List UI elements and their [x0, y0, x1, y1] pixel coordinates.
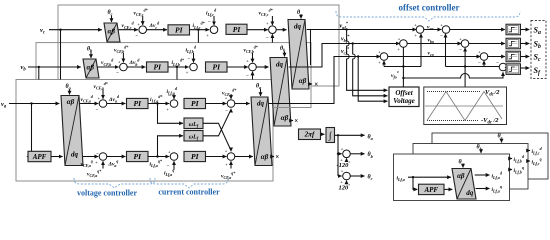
svg-text:APF: APF	[423, 186, 438, 194]
wire i_Lf,c^q output arrow	[528, 160, 530, 162]
wire i_Lf,a into transform block	[408, 176, 451, 178]
wire summer 1a-d to PI a1-d	[107, 103, 126, 105]
junction i_Lf,b branch	[176, 66, 178, 68]
svg-text:θa: θa	[256, 84, 262, 91]
svg-text:+: +	[440, 23, 443, 28]
current transform frame phase c (back)	[432, 133, 548, 179]
wire theta_a arrow into dq block a	[260, 89, 262, 96]
wire v_CF,c^d* arrow into summer 1c	[142, 16, 144, 25]
summer 3a-q	[227, 153, 235, 161]
svg-text:−: −	[187, 58, 190, 63]
wire theta_b arrow stacked	[480, 150, 482, 153]
summer 3a-d	[227, 100, 235, 108]
comparator block S_c	[506, 51, 521, 62]
PI controller b2 (current)	[206, 62, 228, 72]
svg-text:−: −	[167, 165, 170, 170]
svg-text:θb: θb	[368, 152, 374, 159]
frame phase-b controller	[36, 43, 311, 108]
wire i_Lf,c^d output arrow	[528, 150, 530, 152]
svg-text:-120°: -120°	[337, 161, 351, 170]
svg-text:+: +	[414, 23, 417, 28]
svg-text:PI: PI	[134, 152, 143, 161]
svg-text:×: ×	[294, 117, 298, 125]
wire APF to dq input of block a	[51, 156, 63, 158]
wire feedforward arrow into summer 3c	[271, 16, 273, 25]
summer 1a-d	[99, 100, 107, 108]
comparator block S_a	[506, 24, 521, 35]
wire carrier riser to summer o2b	[464, 48, 466, 67]
svg-text:θa: θa	[66, 84, 72, 91]
svg-text:+: +	[266, 21, 269, 26]
wire block a to summer 1a-d	[80, 103, 99, 105]
current transform frame phase a (front)	[394, 154, 510, 201]
PI controller c1 (voltage)	[168, 25, 190, 35]
svg-text:−: −	[208, 20, 211, 25]
current transform frame phase b (middle)	[413, 144, 528, 190]
wire summer 3b to dq block b	[256, 66, 268, 68]
wire alpha-beta c output to x mark	[309, 83, 312, 85]
transform block alpha-beta (phase c)	[104, 23, 120, 42]
svg-text:+: +	[166, 107, 169, 112]
summer o2a (carrier compare)	[442, 26, 450, 34]
summer 2a-q	[170, 153, 178, 161]
wire i_Lf,a^d branch to wLf1	[158, 104, 183, 124]
wire theta_c arrow stacked	[501, 139, 503, 143]
svg-text:PI: PI	[191, 152, 200, 161]
svg-text:θb: θb	[87, 47, 93, 54]
transform block dq/alpha-beta (phase c output)	[288, 20, 309, 90]
carrier upper dotted limit	[427, 91, 481, 93]
wire hidden input up into summer 3c	[271, 34, 273, 42]
wire i_Lf,b branch down (hidden)	[176, 67, 178, 80]
wire theta_c arrow into alpha-beta	[111, 16, 113, 23]
wire comparator a to S_a	[521, 29, 530, 31]
svg-text:αβ: αβ	[67, 98, 75, 106]
svg-text:+: +	[168, 150, 171, 155]
svg-text:dq: dq	[466, 189, 474, 197]
summer 3b	[249, 63, 257, 71]
summer theta_c	[343, 172, 351, 180]
svg-text:voltage controller: voltage controller	[77, 189, 138, 198]
svg-text:PI: PI	[233, 25, 242, 34]
transform block dq/alpha-beta (phase a output)	[251, 97, 272, 166]
svg-text:+: +	[98, 96, 101, 101]
wire feedforward arrow into summer 3b	[252, 53, 254, 62]
PI controller a2-d (current)	[184, 98, 206, 108]
wire v_bf tap down to Offset Voltage (with hop)	[353, 44, 388, 96]
wire i_Lf,c^d arrow into summer 2c	[213, 16, 215, 25]
wire i_Lf,a^d output	[475, 174, 490, 176]
wire alpha-beta b output to x mark	[291, 120, 293, 122]
PI controller b1 (voltage)	[147, 62, 169, 72]
svg-text:ωLf: ωLf	[189, 135, 199, 141]
svg-text:−: −	[135, 34, 138, 39]
wire PI a2-q to summer 3a-q	[206, 156, 227, 158]
wire v_cf tap down to Offset Voltage	[358, 57, 387, 102]
wire theta_c arrow into dq block c	[300, 16, 302, 19]
svg-text:dq: dq	[294, 23, 302, 31]
svg-text:+: +	[341, 147, 344, 152]
wire theta_a arrow stacked	[462, 165, 464, 168]
wire summer 1a-q to PI a1-q	[107, 156, 126, 158]
transform block dq/alpha-beta (phase b output)	[270, 58, 291, 127]
junction theta branch b	[337, 153, 339, 155]
svg-text:−: −	[496, 62, 499, 67]
summer 1a-q	[99, 153, 107, 161]
frame-b bottom edge remnant	[273, 107, 311, 109]
PI controller a2-q (current)	[184, 151, 206, 161]
junction v_fo distribution	[402, 65, 404, 67]
svg-text:2πf: 2πf	[304, 131, 315, 139]
svg-text:αβ: αβ	[261, 153, 269, 161]
svg-text:αβ: αβ	[281, 114, 289, 122]
wire APF to dq stacked	[444, 188, 452, 190]
svg-text:Offset: Offset	[395, 89, 413, 97]
svg-text:dq: dq	[257, 100, 265, 108]
junction i_Lf,a branch	[412, 176, 414, 178]
wire v_CF,a^d* arrow into summer 1a-d	[102, 90, 104, 99]
summer 2c	[210, 26, 218, 34]
wire branch into APF	[27, 156, 32, 158]
wire i_Lf,a branch to APF	[413, 177, 417, 189]
svg-text:αβ: αβ	[86, 64, 94, 72]
svg-text:×: ×	[314, 80, 318, 88]
PI controller c2 (current)	[226, 24, 247, 34]
svg-text:+: +	[225, 162, 228, 167]
wire -120 into theta_b summer	[346, 158, 348, 160]
svg-text:+: +	[397, 47, 400, 52]
wire comparator b to S_b	[521, 43, 530, 45]
summer 2a-d	[170, 100, 178, 108]
wire v_fo riser into summer o1c	[383, 61, 385, 67]
svg-text:+: +	[398, 37, 401, 42]
wire v_b branch down (hidden q-chain)	[38, 67, 40, 80]
wire 2-pi-f to integrator	[321, 133, 325, 135]
svg-text:−: −	[459, 49, 462, 54]
wire 120 into theta_c summer	[346, 181, 348, 183]
wire i_Lf,a^q output	[476, 188, 490, 190]
svg-text:+: +	[414, 33, 417, 38]
wire i_Lf,b^q output arrow	[510, 169, 513, 171]
wire theta branch down	[337, 135, 339, 176]
wire carrier riser to summer o2a	[445, 34, 447, 67]
wire v_b to alpha-beta block b	[28, 66, 81, 68]
wire hidden input up into summer 3b	[252, 72, 254, 80]
wire i_Lf,c branch down (hidden)	[197, 30, 199, 43]
svg-text:+: +	[118, 60, 121, 65]
carrier waveform box	[424, 87, 507, 125]
wire v_CF,b^d* arrow into summer 1b	[122, 53, 124, 62]
comparator block S_f	[506, 64, 521, 75]
decoupling block wLf 2	[184, 131, 203, 142]
wire summer 3c to dq block c	[276, 29, 286, 31]
carrier lower dotted limit	[427, 120, 478, 122]
wire theta_c summer output	[350, 175, 364, 177]
svg-text:current controller: current controller	[158, 188, 220, 197]
svg-text:−: −	[96, 152, 99, 157]
svg-text:dq: dq	[71, 150, 79, 158]
wire v_af tap down to Offset Voltage (with hops)	[347, 30, 388, 91]
wire into theta_c summer	[338, 175, 342, 177]
svg-text:ωLf: ωLf	[189, 122, 199, 128]
transform block alpha-beta/dq (phase a input)	[61, 96, 83, 166]
svg-text:αβ: αβ	[299, 77, 307, 85]
wire summer o2c to comparator c	[488, 56, 505, 58]
wire PI a2-d to summer 3a-d	[206, 103, 227, 105]
wire integrator to theta_a	[335, 134, 365, 136]
PI controller a1-d (voltage)	[127, 98, 149, 108]
wire summer o2b to comparator b	[469, 43, 505, 45]
svg-text:PI: PI	[134, 99, 143, 108]
summer 3c	[269, 26, 277, 34]
wire v_bo to summer o2b	[407, 43, 461, 45]
wire offset voltage riser	[402, 47, 404, 87]
svg-text:+: +	[478, 50, 481, 55]
junction v_bf tap	[352, 42, 354, 44]
wire carrier net	[446, 66, 500, 68]
summer o2c	[480, 53, 488, 61]
wire wLf2 cross to summer 3a-d	[203, 109, 231, 136]
carrier triangle waveform	[427, 92, 502, 121]
wire feedforward arrow into summer 3a-q	[230, 161, 232, 168]
svg-text:offset controller: offset controller	[398, 3, 459, 13]
svg-text:iLf,a: iLf,a	[397, 175, 405, 182]
wire alpha-beta a output to x mark	[272, 156, 274, 158]
svg-text:PI: PI	[213, 63, 222, 72]
svg-text:PI: PI	[154, 63, 163, 72]
wire PI a1-q to summer 2a-q	[148, 156, 169, 158]
wire carrier from carrier box	[464, 67, 466, 88]
wire PI c2 to summer 3c	[247, 29, 268, 31]
wire comparator c to S_c	[521, 56, 530, 58]
svg-text:vco: vco	[428, 50, 434, 57]
svg-text:αβ: αβ	[107, 27, 115, 35]
wire v_c to alpha-beta block	[49, 29, 102, 31]
summer o2f (v_fo vs carrier)	[499, 63, 507, 71]
svg-text:αβ: αβ	[457, 172, 465, 180]
wire dq-a output routed up to v_cf bus	[268, 57, 380, 104]
summer o1c	[380, 53, 388, 61]
svg-text:−: −	[478, 62, 481, 67]
junction v_c branch	[59, 29, 61, 31]
integrator block	[326, 128, 335, 143]
svg-text:−: −	[116, 72, 119, 77]
summer o1b	[400, 40, 408, 48]
wire summer 1b to PI b1	[127, 66, 145, 68]
transform block alpha-beta/dq stacked	[452, 169, 476, 200]
junction theta branch	[337, 134, 339, 136]
wire i_Lf,b^d arrow into summer 2b	[193, 53, 195, 62]
wire block a q out to summer 1a-q	[83, 156, 98, 158]
svg-text:θb: θb	[477, 145, 483, 152]
wire PI c1 to summer 2c	[190, 29, 210, 31]
wire stub below v_af line	[310, 30, 312, 66]
wire theta_b arrow into dq block b	[284, 52, 286, 57]
summer theta_b	[343, 150, 351, 158]
wire i_Lf,a^d arrow into summer 2a-d	[173, 95, 175, 99]
svg-text:/2: /2	[494, 89, 501, 96]
junction v_cf tap	[357, 55, 359, 57]
svg-text:−: −	[246, 74, 249, 79]
svg-text:θa: θa	[368, 135, 374, 142]
wire summer o2f to comparator f	[505, 66, 507, 69]
svg-text:−: −	[440, 35, 443, 40]
wire v_a to alpha-beta/dq block a	[9, 103, 59, 105]
svg-text:−: −	[266, 37, 269, 42]
svg-text:PI: PI	[175, 25, 184, 34]
svg-text:/2: /2	[493, 117, 500, 124]
Offset Voltage block	[389, 87, 419, 107]
wire PI b2 to summer 3b	[227, 66, 248, 68]
wire comparator f to S_f	[521, 67, 530, 69]
wire PI a1-d to summer 2a-d	[148, 103, 169, 105]
svg-text:−: −	[225, 110, 228, 115]
wire carrier riser to summer o2c	[483, 61, 485, 67]
wire v_fo line to S_f summer (hop over carrier riser)	[403, 72, 503, 78]
summer 1b	[120, 63, 128, 71]
frame phase-c controller	[58, 5, 339, 86]
frame phase-a controller	[16, 80, 273, 182]
wire i_Lf,a^q arrow into summer 2a-q	[173, 161, 175, 169]
junction v_a branch to APF	[30, 102, 32, 104]
wire alpha-beta to summer 1c	[119, 29, 138, 31]
svg-text:APF: APF	[32, 153, 47, 161]
svg-text:+: +	[225, 149, 228, 154]
wire i_Lf,a^q branch to wLf2	[158, 136, 183, 157]
wire v_CF,a^q* arrow into summer 1a-q	[102, 161, 104, 168]
comparator block S_b	[506, 38, 521, 49]
APF block phase a	[28, 151, 51, 161]
svg-text:θb: θb	[280, 46, 286, 53]
svg-text:−: −	[96, 108, 99, 113]
switch signal dashed box	[531, 21, 546, 79]
junction i_Lf,a^d branch to wLf	[156, 102, 158, 104]
frequency block 2-pi-f	[299, 129, 321, 140]
svg-text:+: +	[95, 160, 98, 165]
wire theta_b summer output	[350, 153, 364, 155]
svg-text:+: +	[378, 60, 381, 65]
APF block stacked	[419, 184, 445, 194]
svg-text:θc: θc	[368, 174, 373, 181]
wire i_Lf,b^d output arrow	[510, 158, 513, 160]
wire dq-b output routed up to v_bf bus	[289, 44, 400, 68]
wire v_a branch down to APF	[31, 104, 33, 157]
junction i_Lf,c branch	[197, 29, 199, 31]
wire summer 3a-q to dq block a	[235, 156, 253, 158]
svg-text:×: ×	[275, 153, 279, 161]
svg-text:dq: dq	[276, 61, 284, 69]
svg-text:+: +	[186, 70, 189, 75]
wire theta_a arrow into block a	[69, 90, 71, 95]
svg-text:+: +	[378, 50, 381, 55]
junction v_b branch	[38, 66, 40, 68]
PI controller a1-q (voltage)	[127, 151, 149, 161]
wire theta_b arrow into alpha-beta b	[90, 52, 92, 58]
svg-text:+: +	[459, 37, 462, 42]
offset controller brace	[336, 11, 520, 21]
voltage controller brace	[74, 178, 155, 188]
wire PI b1 to summer 2b	[168, 66, 189, 68]
junction v_fo branch	[402, 77, 404, 79]
wire v_fo distribution line	[384, 66, 421, 68]
summer o1a (v_af + v_fo)	[416, 26, 424, 34]
wire summer 1c to PI voltage c	[147, 29, 167, 31]
wire v_co to summer o2c	[388, 56, 480, 58]
transform block alpha-beta (phase b)	[83, 59, 99, 78]
wire summer o2a to comparator a	[450, 29, 505, 31]
frame-c left edge remnant over frame-b	[57, 43, 59, 80]
summer 2b	[190, 63, 198, 71]
wire v_ao to summer o2a	[424, 29, 441, 31]
wire dq-c output to v_af bus	[307, 29, 417, 31]
current controller brace	[150, 178, 228, 188]
svg-text:+: +	[341, 169, 344, 174]
junction i_Lf,a^q branch to wLf	[156, 155, 158, 157]
wire wLf1 cross to summer 3a-q	[203, 123, 231, 151]
wire v_c branch down (hidden q-chain)	[60, 30, 62, 80]
junction v_af tap	[345, 28, 347, 30]
summer o2b	[461, 40, 469, 48]
svg-text:vbo: vbo	[428, 37, 434, 44]
svg-text:+: +	[246, 59, 249, 64]
svg-text:+: +	[137, 22, 140, 27]
wire alpha-beta b to summer 1b	[98, 66, 119, 68]
svg-text:Voltage: Voltage	[393, 97, 414, 105]
wire summer 3a-d to dq block a	[235, 103, 250, 105]
junction carrier source	[464, 65, 466, 67]
decoupling block wLf 1	[184, 118, 203, 129]
svg-text:+: +	[206, 33, 209, 38]
carrier zero line	[425, 105, 503, 107]
wire feedforward arrow into summer 3a-d	[230, 96, 232, 99]
summer 1c	[139, 26, 147, 34]
svg-text:PI: PI	[191, 99, 200, 108]
svg-text:θa: θa	[459, 160, 465, 167]
wire v_fo riser into summer o1a	[420, 34, 422, 67]
wire into theta_b summer	[338, 153, 342, 155]
